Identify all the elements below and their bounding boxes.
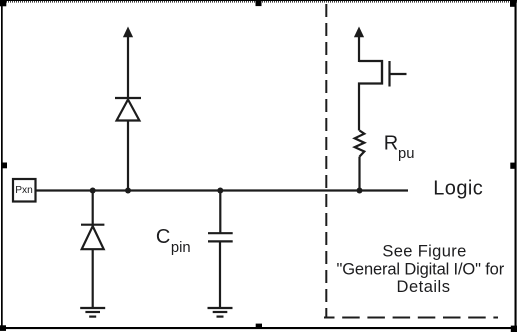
svg-text:pu: pu: [398, 146, 414, 162]
svg-text:C: C: [156, 226, 170, 248]
svg-text:pin: pin: [171, 240, 191, 256]
svg-text:Details: Details: [397, 278, 451, 296]
svg-text:"General Digital I/O" for: "General Digital I/O" for: [337, 260, 505, 278]
svg-text:Logic: Logic: [433, 178, 483, 200]
svg-text:See Figure: See Figure: [382, 242, 466, 260]
svg-text:R: R: [384, 132, 398, 154]
svg-text:Pxn: Pxn: [15, 185, 33, 196]
